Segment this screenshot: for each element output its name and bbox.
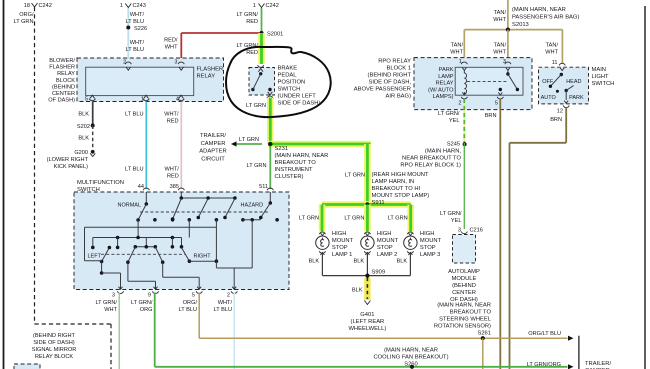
- svg-text:SWITCH: SWITCH: [278, 87, 301, 93]
- svg-text:SIDE OF DASH): SIDE OF DASH): [278, 101, 321, 107]
- svg-text:3: 3: [112, 293, 115, 299]
- park lamp relay block dashed box: [414, 58, 532, 110]
- wire LT GRN arrow to trailer circuit: [236, 143, 262, 145]
- svg-text:2: 2: [227, 293, 230, 299]
- wire LT GRN/ORG from pin 9: [154, 293, 156, 367]
- svg-text:LIGHT: LIGHT: [592, 74, 610, 80]
- splice S911: [365, 202, 369, 206]
- trailer circuit bracket: [578, 336, 580, 369]
- MFS bus2: [93, 237, 182, 239]
- svg-text:AIR BAG): AIR BAG): [386, 94, 412, 100]
- svg-text:LT GRN/: LT GRN/: [95, 300, 117, 306]
- svg-text:ORG: ORG: [140, 307, 153, 313]
- wire TAN/WHT drop main light switch pin11: [561, 30, 563, 64]
- svg-text:CENTER: CENTER: [452, 290, 476, 296]
- svg-text:RELAY: RELAY: [197, 74, 216, 80]
- svg-text:MULTIFUNCTION: MULTIFUNCTION: [77, 180, 124, 186]
- splice S202: [91, 124, 95, 128]
- svg-text:LT GRN: LT GRN: [246, 103, 266, 109]
- svg-text:STOP: STOP: [377, 245, 393, 251]
- svg-text:LT BLU: LT BLU: [126, 19, 144, 25]
- svg-text:MOUNT: MOUNT: [420, 238, 442, 244]
- svg-text:C242: C242: [39, 3, 52, 9]
- svg-text:TAN/: TAN/: [494, 43, 507, 49]
- left page border wire: [3, 0, 5, 369]
- MLS switch blade: [560, 73, 563, 76]
- wire LT BLU flasher pin1 to MFS pin44: [145, 102, 147, 190]
- svg-text:3: 3: [503, 59, 506, 65]
- svg-text:PASSENGER'S AIR BAG): PASSENGER'S AIR BAG): [512, 14, 579, 20]
- svg-text:TAN/: TAN/: [546, 43, 559, 49]
- wire WHT/RED flasher pin4 to MFS pin385: [180, 102, 182, 190]
- svg-text:RIGHT: RIGHT: [194, 254, 212, 260]
- svg-text:S2001: S2001: [267, 32, 283, 38]
- MFS contact 4: [225, 199, 235, 218]
- svg-text:(BEHIND RIGHT: (BEHIND RIGHT: [33, 333, 76, 339]
- MFS routing to pin 2: [215, 261, 217, 268]
- svg-text:WHT: WHT: [545, 50, 558, 56]
- wire BLK from flasher pin 5: [92, 102, 94, 126]
- flasher relay inner box: [86, 67, 194, 95]
- svg-text:OF DASH): OF DASH): [48, 98, 75, 104]
- svg-text:BLOCK: BLOCK: [56, 78, 75, 84]
- blower/flasher relay block (dashed): [77, 58, 224, 102]
- high mount stop lamp 1: [320, 233, 324, 236]
- svg-text:(MAIN HARN, NEAR: (MAIN HARN, NEAR: [437, 303, 491, 309]
- MFS center V group: [145, 238, 147, 247]
- svg-text:WHT: WHT: [450, 50, 463, 56]
- svg-text:CLUSTER): CLUSTER): [275, 174, 304, 180]
- svg-text:LEFT: LEFT: [88, 254, 102, 260]
- svg-text:44: 44: [138, 184, 144, 190]
- svg-text:LAMP 1: LAMP 1: [332, 252, 353, 258]
- svg-text:12: 12: [557, 109, 563, 115]
- wire BLK lamp 3 to S909 bus: [409, 252, 411, 275]
- svg-text:1: 1: [120, 3, 123, 9]
- svg-text:11: 11: [552, 60, 558, 66]
- park relay coil: [464, 70, 466, 93]
- svg-text:LT GRN: LT GRN: [345, 173, 365, 179]
- svg-text:(BEHIND RIGHT: (BEHIND RIGHT: [368, 73, 412, 79]
- svg-text:3: 3: [174, 60, 177, 66]
- svg-text:LT GRN/: LT GRN/: [131, 300, 153, 306]
- svg-text:(REAR HIGH MOUNT: (REAR HIGH MOUNT: [372, 172, 429, 178]
- svg-text:G200: G200: [74, 150, 88, 156]
- svg-text:MAIN: MAIN: [592, 67, 607, 73]
- svg-text:TAN/: TAN/: [494, 10, 507, 16]
- svg-text:WHT/: WHT/: [130, 12, 145, 18]
- svg-text:TAN/: TAN/: [451, 43, 464, 49]
- svg-text:LAMP HARN, IN: LAMP HARN, IN: [372, 179, 415, 185]
- MFS internal wires left: [137, 220, 139, 238]
- svg-text:SIDE OF DASH): SIDE OF DASH): [33, 340, 74, 346]
- svg-text:(MAIN HARN, NEAR: (MAIN HARN, NEAR: [384, 348, 438, 354]
- svg-text:LT BLU: LT BLU: [179, 307, 197, 313]
- svg-text:LT GRN: LT GRN: [299, 216, 319, 222]
- wire RED/WHT branch: [181, 32, 261, 34]
- MFS routing to pin 9: [127, 262, 129, 281]
- svg-text:(BEHIND: (BEHIND: [52, 84, 75, 90]
- hand-drawn circle around brake switch: [226, 47, 331, 117]
- svg-text:BLK: BLK: [354, 259, 365, 265]
- svg-text:WHT: WHT: [493, 50, 506, 56]
- svg-text:WHT/: WHT/: [165, 167, 180, 173]
- svg-text:BLOWER/: BLOWER/: [49, 58, 75, 64]
- svg-text:LT GRN: LT GRN: [14, 19, 34, 25]
- svg-text:LT GRN: LT GRN: [247, 163, 267, 169]
- wire WHT/LT BLU from pin 2: [233, 293, 235, 369]
- wire BLK dashed highlighted to G401: [364, 278, 371, 301]
- svg-text:ORG/: ORG/: [183, 300, 198, 306]
- svg-text:HIGH: HIGH: [377, 231, 392, 237]
- svg-text:5: 5: [85, 97, 88, 103]
- wire TAN/WHT drop park relay pin1: [463, 30, 465, 62]
- wire ORG/LT GRN dashed (left): [34, 7, 36, 324]
- MFS contact 3: [198, 199, 208, 218]
- svg-text:STOP: STOP: [332, 245, 348, 251]
- svg-text:HIGH: HIGH: [420, 231, 435, 237]
- svg-text:(UNDER LEFT: (UNDER LEFT: [278, 94, 317, 100]
- svg-text:LT GRN/ORG: LT GRN/ORG: [527, 362, 561, 368]
- svg-text:9: 9: [148, 293, 151, 299]
- svg-text:SIGNAL MIRROR: SIGNAL MIRROR: [32, 347, 77, 353]
- svg-text:PARK: PARK: [569, 95, 584, 101]
- wire ORG/LT BLU horizontal: [199, 337, 567, 339]
- multifunction switch dashed box: [74, 192, 289, 290]
- svg-text:RELAY: RELAY: [57, 71, 75, 77]
- svg-text:HEAD: HEAD: [566, 79, 581, 85]
- wire LT GRN/YEL S245 to autolamp: [463, 143, 465, 229]
- svg-text:MOUNT STOP LAMP): MOUNT STOP LAMP): [372, 193, 430, 199]
- svg-text:G401: G401: [360, 312, 374, 318]
- svg-text:NORMAL: NORMAL: [118, 203, 142, 209]
- svg-text:LT GRN: LT GRN: [388, 216, 408, 222]
- svg-text:(MAIN HARN, NEAR: (MAIN HARN, NEAR: [512, 7, 566, 13]
- ground G200: [91, 150, 95, 154]
- svg-text:5: 5: [192, 293, 195, 299]
- svg-text:COOLING FAN BREAKOUT): COOLING FAN BREAKOUT): [373, 355, 448, 361]
- svg-text:ROTATION SENSOR): ROTATION SENSOR): [434, 324, 491, 330]
- svg-text:AUTOLAMP: AUTOLAMP: [448, 269, 480, 275]
- svg-text:POSITION: POSITION: [278, 80, 306, 86]
- svg-text:BLK: BLK: [78, 112, 89, 118]
- wire LT GRN/RED from C242: [261, 8, 263, 33]
- svg-text:C216: C216: [470, 228, 483, 234]
- wire BLK S909 bus: [322, 275, 410, 277]
- svg-text:WHT: WHT: [104, 307, 117, 313]
- park relay gang dashed line: [467, 81, 507, 83]
- svg-text:CENTER: CENTER: [52, 91, 75, 97]
- svg-text:LAMP: LAMP: [438, 74, 454, 80]
- svg-text:(W/ AUTO: (W/ AUTO: [428, 87, 454, 93]
- svg-text:TRAILER/: TRAILER/: [200, 133, 226, 139]
- svg-text:S226: S226: [134, 26, 147, 32]
- main light switch dashed box: [539, 67, 589, 104]
- svg-text:HIGH: HIGH: [332, 231, 347, 237]
- splice S2001: [259, 31, 263, 35]
- svg-text:BRAKE: BRAKE: [278, 66, 298, 72]
- svg-text:LAMP 2: LAMP 2: [377, 252, 398, 258]
- svg-text:PEDAL: PEDAL: [278, 73, 298, 79]
- svg-text:(LEFT REAR: (LEFT REAR: [351, 319, 385, 325]
- brake pedal position switch box: [249, 68, 275, 96]
- svg-text:(BEHIND: (BEHIND: [452, 283, 476, 289]
- svg-text:BRN: BRN: [550, 117, 562, 123]
- svg-text:BLK: BLK: [78, 136, 89, 142]
- svg-text:RED: RED: [167, 174, 179, 180]
- svg-text:3: 3: [458, 228, 461, 234]
- MFS contact hazard under 511: [269, 192, 271, 203]
- svg-text:KICK PANEL): KICK PANEL): [54, 164, 89, 170]
- svg-text:RED: RED: [246, 50, 258, 56]
- MFS routing to pin 5: [162, 262, 164, 277]
- splice S2013: [506, 28, 510, 32]
- svg-text:LT GRN/: LT GRN/: [438, 111, 460, 117]
- svg-text:HAZARD: HAZARD: [241, 203, 264, 209]
- wire LT GRN drop lamp3: [407, 205, 414, 232]
- brake switch contact: [259, 72, 262, 75]
- svg-text:ORG/: ORG/: [19, 12, 34, 18]
- svg-text:SIDE OF DASH,: SIDE OF DASH,: [368, 80, 411, 86]
- wire LT GRN thin S231 down to MFS pin 511: [269, 146, 271, 189]
- svg-text:RELAY BLOCK: RELAY BLOCK: [35, 354, 74, 360]
- right page border wire: [644, 6, 646, 369]
- signal mirror relay block dashed outline: [35, 323, 112, 325]
- MFS pin 2 bottom: [232, 287, 236, 290]
- svg-text:LT BLU: LT BLU: [126, 47, 144, 53]
- MFS hazard bottom link: [243, 219, 261, 221]
- wire BRN from park relay pin 5: [499, 99, 501, 369]
- MFS contact 2: [173, 199, 182, 220]
- svg-text:LT GRN/: LT GRN/: [236, 12, 258, 18]
- splice S909: [365, 274, 369, 278]
- svg-text:PARK: PARK: [439, 67, 454, 73]
- svg-text:WHT: WHT: [165, 45, 178, 51]
- svg-text:LT BLU: LT BLU: [214, 307, 232, 313]
- MFS fixed contact dots row: [153, 218, 157, 222]
- svg-text:ABOVE PASSENGER: ABOVE PASSENGER: [354, 87, 411, 93]
- svg-text:RED: RED: [246, 19, 258, 25]
- svg-text:(MAIN HARN, NEAR: (MAIN HARN, NEAR: [275, 153, 329, 159]
- svg-text:SWITCH: SWITCH: [592, 81, 615, 87]
- svg-text:RED/: RED/: [164, 38, 178, 44]
- ground G401: [364, 301, 370, 305]
- svg-text:S260: S260: [404, 362, 418, 368]
- svg-text:BLOCK 1: BLOCK 1: [387, 66, 412, 72]
- svg-text:511: 511: [259, 184, 268, 190]
- svg-text:WHT/: WHT/: [218, 300, 233, 306]
- svg-text:WHT/: WHT/: [130, 40, 145, 46]
- MFS bus1: [85, 226, 217, 228]
- svg-text:OFF: OFF: [542, 79, 554, 85]
- signal mirror relay block box (bottom corner): [14, 364, 40, 369]
- svg-text:TRAILER/: TRAILER/: [585, 361, 611, 367]
- MFS contact under pin 44: [145, 192, 147, 204]
- svg-text:C242: C242: [266, 3, 279, 9]
- svg-text:AUTO: AUTO: [541, 95, 557, 101]
- wire LT GRN highlighted brake switch to S231: [267, 98, 274, 145]
- svg-text:BLK: BLK: [352, 288, 363, 294]
- MFS right contact: [182, 248, 190, 262]
- high mount stop lamp 3: [408, 233, 412, 236]
- svg-text:18: 18: [24, 3, 30, 9]
- svg-text:LAMP 3: LAMP 3: [420, 252, 441, 258]
- wire LT GRN drop lamp1: [319, 205, 326, 232]
- splice S260: [410, 365, 414, 369]
- svg-text:MOUNT: MOUNT: [377, 238, 399, 244]
- svg-text:S2013: S2013: [512, 22, 529, 28]
- wire LT GRN/WHT from pin 3: [118, 293, 120, 369]
- wire BLK lamp 1 to S909 bus: [321, 252, 323, 275]
- splice S245: [463, 142, 467, 146]
- svg-text:C243: C243: [133, 3, 146, 9]
- svg-text:LT GRN: LT GRN: [344, 216, 364, 222]
- svg-text:LT GRN/: LT GRN/: [440, 211, 462, 217]
- svg-text:STEERING WHEEL: STEERING WHEEL: [439, 317, 492, 323]
- svg-text:(LOWER RIGHT: (LOWER RIGHT: [47, 157, 89, 163]
- svg-text:S261: S261: [477, 331, 491, 337]
- wire BLK lamp 2 to S909 bus: [366, 252, 368, 275]
- svg-text:NEAR BREAKOUT TO: NEAR BREAKOUT TO: [402, 156, 461, 162]
- svg-text:YEL: YEL: [451, 218, 462, 224]
- svg-text:BREAKOUT TO HI: BREAKOUT TO HI: [372, 186, 421, 192]
- svg-text:385: 385: [170, 184, 179, 190]
- svg-text:LT BLU: LT BLU: [125, 167, 143, 173]
- svg-text:WHEELWELL): WHEELWELL): [348, 326, 386, 332]
- wire BLK dashed to ground: [92, 126, 94, 150]
- svg-text:2: 2: [458, 101, 461, 107]
- svg-text:1: 1: [253, 3, 256, 9]
- svg-text:BLK: BLK: [397, 259, 408, 265]
- wire LT GRN highlighted S911 bus: [322, 201, 411, 208]
- svg-text:RELAY: RELAY: [436, 81, 454, 87]
- svg-text:LAMPS): LAMPS): [433, 94, 454, 100]
- splice S261: [481, 336, 485, 340]
- svg-text:BREAKOUT TO: BREAKOUT TO: [450, 310, 492, 316]
- svg-text:LT GRN: LT GRN: [239, 137, 259, 143]
- svg-text:S911: S911: [372, 200, 385, 206]
- MFS pin 9 bottom: [154, 287, 158, 290]
- wire LT GRN drop lamp2: [364, 205, 371, 232]
- svg-text:5: 5: [495, 101, 498, 107]
- svg-text:YEL: YEL: [449, 118, 460, 124]
- MFS pin 5 bottom: [197, 287, 201, 290]
- park relay switch: [507, 70, 509, 74]
- MFS pin 3 bottom: [119, 287, 123, 290]
- svg-text:RPO RELAY: RPO RELAY: [378, 59, 411, 65]
- svg-text:FLASHER: FLASHER: [49, 65, 75, 71]
- MFS left bottom routing to pin 3: [85, 260, 102, 262]
- svg-text:ADAPTER: ADAPTER: [199, 149, 226, 155]
- svg-text:STOP: STOP: [420, 245, 436, 251]
- svg-text:WHT: WHT: [493, 17, 506, 23]
- svg-text:BLK: BLK: [309, 259, 320, 265]
- wire LT GRN highlighted S231 to S911 corner: [268, 141, 371, 148]
- svg-text:MOUNT: MOUNT: [332, 238, 354, 244]
- svg-text:S245: S245: [447, 142, 460, 148]
- autolamp module box: [453, 235, 476, 264]
- svg-text:S202: S202: [77, 124, 90, 130]
- high mount stop lamp 2: [365, 233, 369, 236]
- wire TAN/WHT drop park relay pin3: [507, 30, 509, 62]
- wire ORG/LT BLU from pin 5: [198, 293, 200, 339]
- wire LT GRN/YEL dashed to S245: [463, 99, 465, 143]
- svg-text:FLASHER: FLASHER: [197, 67, 224, 73]
- svg-text:ORG/LT BLU: ORG/LT BLU: [528, 331, 561, 337]
- MFS gang dashed line normal/hazard: [140, 211, 269, 213]
- wire TAN/WHT from top (S2013 feed): [507, 0, 509, 30]
- wire LT GRN/RED highlighted to brake switch: [258, 33, 265, 64]
- MFS 385 bus: [180, 192, 182, 198]
- svg-text:MODULE: MODULE: [452, 276, 477, 282]
- svg-text:S231: S231: [275, 146, 289, 152]
- connector C242 pin 18 mark: [32, 3, 38, 7]
- svg-text:INSTRUMENT: INSTRUMENT: [275, 167, 313, 173]
- connector C242 pin 1 mark: [259, 4, 265, 8]
- svg-text:WHT/: WHT/: [164, 112, 179, 118]
- svg-text:CAMPER: CAMPER: [201, 141, 226, 147]
- svg-text:RPO RELAY BLOCK 1): RPO RELAY BLOCK 1): [400, 163, 461, 169]
- wire LT GRN/ORG horizontal: [155, 366, 568, 368]
- svg-text:(MAIN HARN,: (MAIN HARN,: [425, 149, 461, 155]
- svg-text:CIRCUIT: CIRCUIT: [201, 156, 225, 162]
- park lamp relay inner box: [455, 67, 523, 95]
- wire WHT/LT BLU from C243: [127, 8, 129, 62]
- svg-text:S909: S909: [372, 270, 386, 276]
- wire TAN/WHT bus: [464, 29, 562, 31]
- wire BRN from MLS pin 12: [565, 108, 567, 143]
- splice S226: [126, 26, 130, 30]
- svg-text:LT BLU: LT BLU: [125, 112, 143, 118]
- connector C243 pin 1 mark: [125, 4, 131, 8]
- svg-text:BRN: BRN: [485, 113, 497, 119]
- svg-text:BREAKOUT TO: BREAKOUT TO: [275, 160, 317, 166]
- MFS gang dashed line left/right: [101, 253, 185, 255]
- MFS left contact: [102, 248, 110, 262]
- svg-text:RED: RED: [167, 119, 179, 125]
